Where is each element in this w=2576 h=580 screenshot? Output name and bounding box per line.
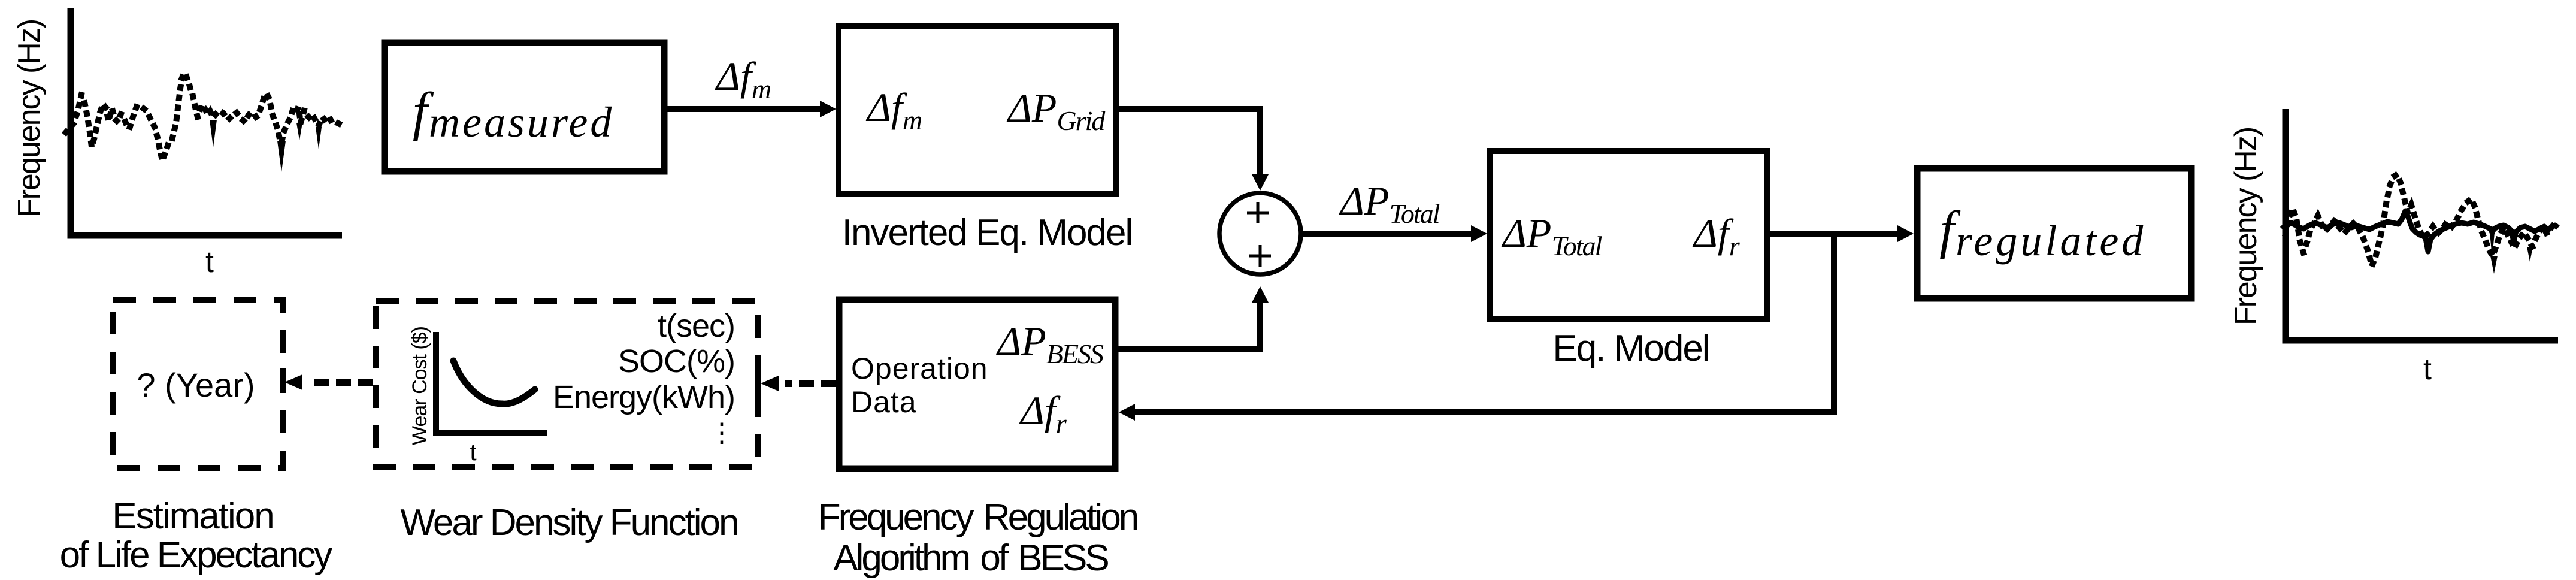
svg-text:Eq. Model: Eq. Model: [1552, 328, 1709, 369]
svg-text:Estimation: Estimation: [112, 496, 273, 537]
svg-text:Algorithm of BESS: Algorithm of BESS: [833, 537, 1108, 579]
svg-text:Operation: Operation: [851, 352, 988, 385]
wire W2 Inverted Eq. Model to summing junction: [1119, 109, 1269, 191]
svg-text:of Life Expectancy: of Life Expectancy: [60, 534, 333, 576]
block f_regulated: [1917, 168, 2191, 298]
right chart x-axis label t: [2423, 352, 2432, 386]
wire W5 feedback delta f_r to Operation Data: [1119, 234, 1834, 421]
block U2 Eq. Model: [1490, 151, 1767, 319]
svg-text:Data: Data: [851, 385, 917, 419]
dashed block Estimation of Life Expectancy: [113, 300, 283, 468]
caption Frequency Regulation Algorithm of BESS: [818, 497, 1137, 579]
block U3 Operation Data (Frequency Regulation Algorithm of BESS): [839, 300, 1115, 469]
svg-text:Energy(kWh): Energy(kWh): [553, 379, 735, 415]
dashed wire A2 Wear Density Function to Estimation: [283, 368, 373, 391]
block U1 Inverted Eq. Model: [839, 26, 1116, 194]
svg-text:Inverted Eq. Model: Inverted Eq. Model: [842, 212, 1132, 253]
svg-text:Wear Density Function: Wear Density Function: [401, 502, 738, 543]
right chart y-axis label Frequency (Hz): [2229, 128, 2263, 325]
wire W1 f_measured to Inverted Eq. Model: [667, 101, 836, 117]
left chart axes: [71, 8, 342, 235]
caption Wear Density Function: [401, 502, 738, 543]
svg-text:⋮: ⋮: [709, 418, 735, 448]
wire W6 delta P_BESS to summing junction: [1118, 286, 1269, 349]
summing junction S1: [1219, 193, 1301, 274]
caption Estimation of Life Expectancy: [60, 496, 333, 576]
svg-text:Frequency (Hz): Frequency (Hz): [12, 20, 47, 217]
svg-text:t: t: [205, 245, 214, 279]
label delta P_Total on wire W3: [1339, 178, 1440, 229]
svg-text:Frequency Regulation: Frequency Regulation: [818, 497, 1137, 538]
dashed wire A1 Operation Data to Wear Density Function: [758, 373, 836, 397]
svg-text:Frequency (Hz): Frequency (Hz): [2229, 128, 2263, 325]
svg-text:? (Year): ? (Year): [137, 366, 255, 404]
wire W4 Eq. Model to f_regulated: [1770, 225, 1914, 242]
left chart x-axis label t: [205, 245, 214, 279]
wire W3 summing junction to Eq. Model: [1301, 225, 1487, 242]
caption Eq. Model: [1552, 328, 1709, 369]
caption Inverted Eq. Model: [842, 212, 1132, 253]
svg-text:t(sec): t(sec): [658, 308, 735, 344]
dashed block Wear Density Function: [376, 301, 758, 467]
label delta f_m on wire W1: [715, 53, 771, 104]
right chart axes: [2286, 109, 2558, 340]
right chart solid regulated signal: [2282, 211, 2558, 258]
svg-text:SOC(%): SOC(%): [618, 343, 735, 379]
svg-text:t: t: [2423, 352, 2432, 386]
right chart dotted measured signal: [2286, 174, 2557, 274]
left chart y-axis label Frequency (Hz): [12, 20, 47, 217]
block f_measured: [385, 43, 664, 171]
left chart dotted frequency signal: [66, 73, 343, 172]
svg-text:t: t: [470, 439, 476, 466]
svg-text:Wear Cost ($): Wear Cost ($): [408, 327, 431, 445]
